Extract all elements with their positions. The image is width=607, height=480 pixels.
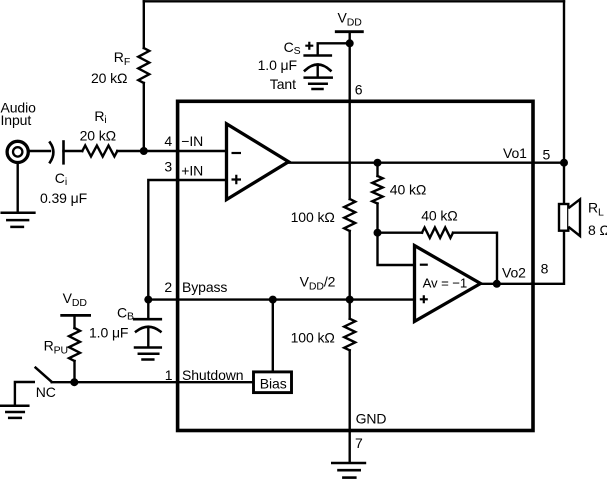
svg-text:8 Ω: 8 Ω [588, 222, 607, 238]
node input junction [140, 147, 148, 155]
capacitor CS plates [305, 54, 331, 57]
svg-text:Vo2: Vo2 [502, 264, 526, 280]
resistor 100k lower [344, 319, 355, 351]
svg-text:CS: CS [284, 39, 301, 57]
wire jack to Ci [28, 150, 50, 152]
node Vo1 40k junction [374, 159, 382, 167]
svg-text:1: 1 [165, 367, 173, 383]
speaker RL [559, 204, 568, 231]
svg-text:VDD: VDD [63, 290, 88, 309]
op-amp U2 minus sign [420, 264, 428, 266]
svg-text:Tant: Tant [270, 76, 296, 92]
svg-text:1.0 μF: 1.0 μF [89, 325, 128, 341]
wire RF bottom to input node [143, 83, 145, 151]
wire shutdown pin1 [52, 381, 252, 383]
wire Ri to -IN pin4 [117, 150, 226, 152]
plus sign of CS [305, 42, 313, 50]
svg-text:VDD/2: VDD/2 [300, 274, 336, 293]
svg-text:Av = −1: Av = −1 [423, 275, 468, 290]
wire 100k upper to VDD/2 [349, 231, 351, 300]
switch arm [36, 368, 52, 382]
wire CS branch [318, 43, 350, 54]
wire jack ground stub [17, 163, 19, 212]
svg-text:20 kΩ: 20 kΩ [91, 70, 127, 86]
svg-text:40 kΩ: 40 kΩ [390, 182, 426, 198]
node feedback junction [374, 229, 382, 237]
svg-text:40 kΩ: 40 kΩ [421, 208, 457, 224]
wire 40k horizontal to Vo2 [453, 233, 497, 284]
node Vo2 junction [493, 280, 501, 288]
wire 100k lower to GND pin 7 [349, 350, 351, 461]
wire bias branch [272, 300, 274, 371]
ground jack [2, 212, 35, 215]
svg-text:8: 8 [541, 261, 549, 277]
svg-text:Ci: Ci [55, 170, 67, 188]
svg-text:3: 3 [164, 159, 172, 175]
svg-text:Bypass: Bypass [182, 279, 227, 295]
svg-text:0.39 μF: 0.39 μF [40, 190, 87, 206]
svg-text:7: 7 [355, 435, 363, 451]
ground NC [1, 405, 29, 408]
wire RF top [143, 1, 145, 48]
capacitor CB plates [134, 318, 161, 321]
svg-text:Ri: Ri [94, 108, 106, 126]
ground GND pin7 [332, 462, 365, 465]
resistor 40k horizontal [422, 228, 453, 238]
capacitor Ci plates [50, 143, 53, 163]
svg-text:−IN: −IN [181, 133, 203, 149]
op-amp U1 minus sign [232, 152, 242, 154]
svg-text:Input: Input [1, 112, 32, 128]
bias box [254, 372, 292, 393]
wire Vo2 output [481, 283, 533, 285]
IC box [178, 101, 533, 430]
node shutdown junction [70, 378, 78, 386]
wire right vertical from top to Vo1 node [563, 1, 565, 204]
wire VDD/2 to 100k lower [349, 300, 351, 319]
wire VDD vertical into IC [349, 32, 351, 199]
wire RPU top [73, 315, 75, 328]
svg-text:1.0 μF: 1.0 μF [258, 57, 297, 73]
svg-text:+IN: +IN [181, 162, 203, 178]
svg-text:RF: RF [114, 49, 130, 68]
wire node to 40k horizontal [378, 231, 423, 233]
resistor Ri [82, 146, 117, 157]
op-amp U1 plus sign [232, 175, 242, 184]
svg-text:Bias: Bias [260, 375, 287, 391]
power bar VDD top [336, 30, 362, 33]
resistor 40k vertical [372, 176, 382, 204]
svg-text:RL: RL [588, 199, 604, 218]
resistor RF [138, 48, 149, 83]
svg-text:100 kΩ: 100 kΩ [291, 209, 335, 225]
resistor 100k upper [344, 199, 355, 231]
svg-text:GND: GND [356, 411, 387, 427]
wire CS to ground [317, 65, 319, 77]
wire speaker bottom to Vo2 [531, 231, 564, 284]
svg-text:5: 5 [543, 147, 551, 163]
wire Ci to Ri [64, 150, 83, 152]
wire +IN pin3 [148, 180, 226, 300]
op-amp U2 [415, 246, 481, 322]
svg-text:Shutdown: Shutdown [182, 367, 243, 383]
node Vo1 speaker junction [560, 159, 568, 167]
wire 40k upper branch [376, 163, 378, 176]
ground CB [135, 346, 161, 349]
wire Vo1 output [289, 161, 564, 163]
wire bypass VDD/2 rail [148, 298, 414, 300]
wire 40k vertical to node [376, 204, 378, 233]
svg-text:VDD: VDD [338, 9, 363, 28]
svg-text:100 kΩ: 100 kΩ [291, 330, 335, 346]
op-amp U2 plus sign [420, 295, 428, 303]
svg-text:NC: NC [36, 384, 56, 400]
svg-text:20 kΩ: 20 kΩ [80, 127, 116, 143]
wire top feedback rail [144, 0, 564, 2]
svg-text:6: 6 [355, 81, 363, 97]
wire switch left contact [15, 382, 34, 405]
power bar VDD at RPU [62, 314, 90, 317]
node VDD CS junction [346, 39, 354, 47]
svg-text:4: 4 [164, 133, 172, 149]
svg-text:RPU: RPU [44, 337, 68, 356]
wire CB to ground [147, 329, 149, 347]
wire CB stub [147, 300, 149, 318]
node VDD/2 junction [346, 296, 354, 304]
op-amp U1 [227, 124, 289, 200]
audio input jack [7, 141, 28, 162]
ground CS [305, 76, 332, 79]
resistor RPU [69, 328, 80, 361]
svg-text:2: 2 [164, 279, 172, 295]
svg-text:CB: CB [117, 305, 134, 323]
node bypass CB junction [144, 296, 152, 304]
svg-text:Vo1: Vo1 [503, 145, 527, 161]
node bias junction [269, 296, 277, 304]
wire feedback to op2 minus input [378, 233, 415, 265]
wire RPU bottom [73, 361, 75, 382]
